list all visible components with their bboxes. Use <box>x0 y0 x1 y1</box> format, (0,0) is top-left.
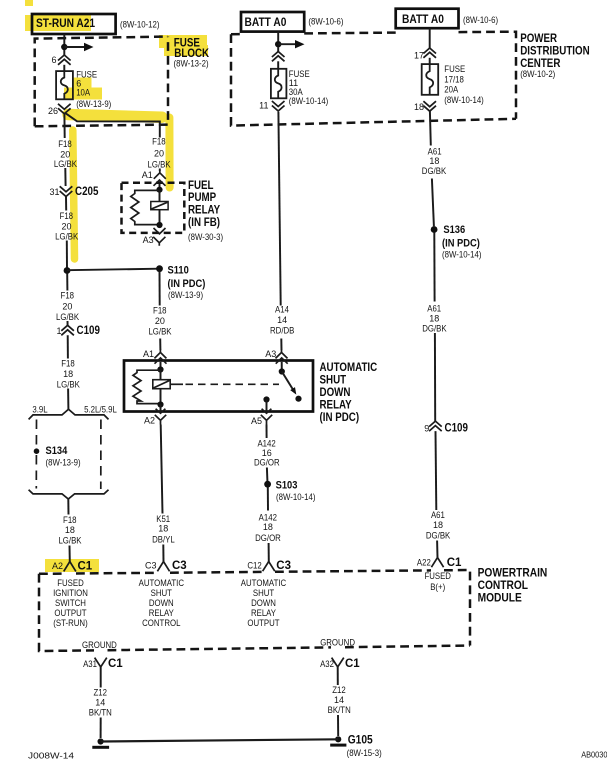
svg-text:S134: S134 <box>46 445 69 457</box>
svg-text:26: 26 <box>48 106 58 116</box>
svg-text:20: 20 <box>154 149 164 159</box>
svg-text:C1: C1 <box>108 658 123 670</box>
connector A32 of PCM C1 <box>332 658 344 667</box>
svg-text:LG/BK: LG/BK <box>148 160 171 170</box>
connector A31 of PCM C1 <box>95 658 107 667</box>
svg-text:RELAY: RELAY <box>251 608 276 618</box>
svg-text:18: 18 <box>263 522 273 532</box>
node box BATT A0 (right) <box>396 9 459 29</box>
svg-text:S110: S110 <box>168 265 189 277</box>
svg-text:A61: A61 <box>428 146 442 156</box>
ground terminal left <box>98 738 104 744</box>
svg-text:(8W-10-14): (8W-10-14) <box>289 96 329 106</box>
wire brace to F18 labels <box>67 499 69 515</box>
fuse block dashed enclosure <box>35 37 168 127</box>
svg-text:(8W-13-9): (8W-13-9) <box>168 290 203 300</box>
svg-text:F18: F18 <box>63 515 77 525</box>
svg-text:C3: C3 <box>276 560 291 572</box>
svg-text:GROUND: GROUND <box>320 638 355 648</box>
wire ASD coil to A2 <box>160 405 162 413</box>
wire to PCM A22 connector <box>436 541 438 558</box>
svg-text:FUSED: FUSED <box>424 571 451 581</box>
svg-text:F18: F18 <box>152 136 166 146</box>
svg-text:17/18: 17/18 <box>444 74 464 84</box>
fuel pump relay coil branch node top <box>156 187 162 193</box>
svg-text:A3: A3 <box>265 349 276 359</box>
wire left column to C205 <box>64 168 66 186</box>
svg-text:A142: A142 <box>257 438 275 448</box>
svg-text:DG/OR: DG/OR <box>255 533 281 543</box>
svg-text:LG/BK: LG/BK <box>55 231 78 241</box>
svg-text:LG/BK: LG/BK <box>57 379 80 389</box>
connector C3 of PCM C3 <box>157 562 169 572</box>
svg-text:(8W-10-14): (8W-10-14) <box>444 95 484 105</box>
svg-text:(8W-10-6): (8W-10-6) <box>463 15 498 25</box>
ASD switch pivot node <box>279 368 285 374</box>
ASD coil node top <box>157 366 163 372</box>
svg-text:11: 11 <box>259 101 268 111</box>
wire to PCM A2 connector <box>69 546 71 562</box>
svg-text:C109: C109 <box>445 422 468 434</box>
ASD relay coil element <box>153 380 170 389</box>
svg-text:A61: A61 <box>431 510 445 520</box>
wire branch down to fuel pump relay A1 <box>159 169 161 172</box>
svg-text:SWITCH: SWITCH <box>55 598 86 608</box>
svg-text:18: 18 <box>414 102 424 112</box>
svg-text:17: 17 <box>414 51 424 61</box>
svg-text:K51: K51 <box>156 514 170 524</box>
svg-text:A61: A61 <box>427 304 441 314</box>
wire to ASD relay A1 <box>159 339 161 351</box>
svg-text:FUSED: FUSED <box>57 578 84 588</box>
fuse 11 body <box>271 69 287 99</box>
svg-text:20: 20 <box>60 150 70 160</box>
wire A2 ASD down K51 <box>161 425 163 514</box>
wire to S110 branch node <box>66 241 68 269</box>
fuse 17/18 body <box>422 64 439 95</box>
wire C205 down <box>65 197 67 211</box>
svg-text:C1: C1 <box>78 560 93 572</box>
pin chevron out of fuel pump relay <box>154 228 166 234</box>
svg-text:(IN PDC): (IN PDC) <box>168 278 206 290</box>
highlighter mark over BLOCK word <box>164 45 208 56</box>
connector A1 ASD relay <box>154 350 166 359</box>
svg-text:LG/BK: LG/BK <box>58 535 81 545</box>
svg-text:SHUT: SHUT <box>320 375 347 387</box>
wire S103 down <box>267 487 269 510</box>
svg-text:(IN PDC): (IN PDC) <box>442 238 480 250</box>
wire A5 down to A142 labels <box>266 425 268 439</box>
svg-text:DG/BK: DG/BK <box>426 531 450 541</box>
wire A32 down <box>337 667 339 685</box>
wire BATT A0 left to node <box>277 32 279 42</box>
dashed run 5.2L/5.9L branch <box>100 420 102 490</box>
svg-text:Z12: Z12 <box>93 688 107 698</box>
ASD switch blade end node <box>295 396 301 402</box>
dashed run 3.9L branch <box>35 420 37 448</box>
pin chevron into ASD relay A3 <box>276 358 288 364</box>
connector A2 of PCM C1 <box>64 562 76 572</box>
wire to C12 connector <box>268 543 270 562</box>
svg-text:10A: 10A <box>76 88 90 98</box>
svg-text:A1: A1 <box>143 349 154 359</box>
svg-text:BK/TN: BK/TN <box>328 705 351 715</box>
svg-text:14: 14 <box>334 695 344 705</box>
dashed run 3.9L branch lower <box>35 455 37 489</box>
fuel pump relay resistor <box>131 190 160 224</box>
fuse 11 pin double chevron <box>272 101 285 111</box>
svg-text:AUTOMATIC: AUTOMATIC <box>320 362 378 374</box>
feed arrow right of BATT node <box>278 43 295 45</box>
svg-text:F18: F18 <box>153 305 167 315</box>
node junction left column <box>64 267 71 274</box>
svg-text:SHUT: SHUT <box>253 588 275 598</box>
svg-text:Z12: Z12 <box>332 685 346 695</box>
svg-text:18: 18 <box>429 156 439 166</box>
svg-text:(8W-13-2): (8W-13-2) <box>174 59 209 69</box>
automatic shut down relay box <box>124 361 313 412</box>
svg-text:14: 14 <box>95 698 105 708</box>
connector C109 pin1 double chevron <box>61 325 74 335</box>
wire BATT A0 right to fuse 17 <box>429 28 431 48</box>
wire fuse 26 down left branch <box>63 114 65 138</box>
wire left column below LG/BK to brace <box>66 273 68 290</box>
svg-text:BATT A0: BATT A0 <box>402 12 444 26</box>
svg-text:A142: A142 <box>259 512 277 522</box>
splice S110 <box>156 265 163 272</box>
node box BATT A0 (left) <box>241 12 304 32</box>
svg-text:A31: A31 <box>83 659 97 669</box>
wire into ASD switch pivot <box>281 362 283 372</box>
wire to ASD relay A3 <box>280 339 282 351</box>
svg-text:BATT A0: BATT A0 <box>245 15 287 29</box>
svg-text:18: 18 <box>158 524 168 534</box>
svg-text:C205: C205 <box>75 186 99 198</box>
wire BK/TN to ground <box>100 718 102 739</box>
coil stub to dashed link <box>170 383 183 385</box>
highlighter mark over FUSE word <box>159 35 207 48</box>
svg-text:(8W-10-14): (8W-10-14) <box>276 492 316 502</box>
svg-text:DOWN: DOWN <box>149 598 174 608</box>
ground G105 terminal <box>335 736 341 742</box>
wire to engine split brace <box>67 389 69 410</box>
wire fuse 18 down to A61 labels <box>429 111 432 145</box>
wire BATT fuse 11 to A3 <box>278 112 280 306</box>
svg-text:DOWN: DOWN <box>251 598 276 608</box>
svg-text:DG/BK: DG/BK <box>422 166 446 176</box>
fuel pump relay coil branch node bottom <box>156 222 162 228</box>
svg-text:20: 20 <box>61 222 71 232</box>
svg-text:LG/BK: LG/BK <box>54 159 77 169</box>
highlighter mark over ST-RUN A21 label <box>25 15 91 31</box>
wire to fuse 17/18 <box>429 58 431 64</box>
highlighter mark over fuse value 6 <box>73 78 92 88</box>
svg-text:(8W-30-3): (8W-30-3) <box>188 232 223 242</box>
svg-text:BK/TN: BK/TN <box>89 707 112 717</box>
pin chevron out of ASD relay A2 <box>156 409 166 413</box>
svg-text:A5: A5 <box>251 416 262 426</box>
fuel pump relay coil wire <box>159 190 161 225</box>
wire into ASD coil <box>160 362 162 370</box>
connector C109 pin9 double chevron <box>429 421 442 431</box>
pin chevron into fuel pump relay <box>154 180 166 186</box>
svg-text:18: 18 <box>63 369 73 379</box>
svg-text:DISTRIBUTION: DISTRIBUTION <box>520 46 590 58</box>
wire to fuse 11 <box>277 61 279 69</box>
svg-text:SHUT: SHUT <box>151 588 173 598</box>
connector A3 fuel pump relay <box>153 237 165 246</box>
svg-text:A3: A3 <box>143 235 154 245</box>
connector C205 double chevron <box>60 186 73 196</box>
wire across to splice S110 <box>67 269 160 271</box>
svg-text:POWER: POWER <box>520 33 557 45</box>
power distribution center dashed enclosure <box>231 32 516 126</box>
svg-text:C3: C3 <box>145 561 157 571</box>
connector C12 of PCM C3 <box>263 562 275 572</box>
splice S103 <box>264 481 271 488</box>
ASD relay coil wire <box>160 370 162 405</box>
svg-text:GROUND: GROUND <box>82 640 117 650</box>
wire A61 to C109 pin 9 <box>434 333 436 422</box>
svg-text:B(+): B(+) <box>430 582 445 592</box>
fuse 17 top double chevron <box>423 48 436 58</box>
svg-text:OUTPUT: OUTPUT <box>54 608 87 618</box>
wire to C3 connector <box>162 545 164 562</box>
connector A2 ASD relay <box>155 415 166 425</box>
svg-text:A32: A32 <box>320 659 334 669</box>
svg-text:DG/BK: DG/BK <box>422 324 446 334</box>
wire to C109 pin 1 <box>67 321 69 326</box>
splice S136 <box>431 226 438 233</box>
svg-text:(IN PDC): (IN PDC) <box>320 412 360 424</box>
svg-text:DG/OR: DG/OR <box>254 457 280 467</box>
svg-text:(8W-10-12): (8W-10-12) <box>120 19 160 29</box>
svg-text:RELAY: RELAY <box>188 205 220 217</box>
ASD coil node bottom <box>157 401 163 407</box>
connector A5 ASD relay <box>261 415 272 425</box>
svg-text:18: 18 <box>429 314 439 324</box>
svg-text:LG/BK: LG/BK <box>56 312 79 322</box>
svg-text:FUSE: FUSE <box>444 64 465 74</box>
connector pin 26 double chevron <box>58 104 71 114</box>
svg-text:A2: A2 <box>52 561 63 571</box>
ASD switch contact node <box>263 396 269 402</box>
svg-text:S136: S136 <box>443 224 465 236</box>
wire into fuel pump relay <box>159 184 161 190</box>
pin chevron into ASD relay A1 <box>155 358 167 364</box>
highlighter band along branch wire to fuel pump relay <box>68 115 162 118</box>
svg-text:MODULE: MODULE <box>478 590 522 604</box>
wire to fuse 6 <box>63 65 65 71</box>
svg-text:DB/YL: DB/YL <box>152 534 175 544</box>
svg-text:A22: A22 <box>417 557 431 567</box>
svg-text:9: 9 <box>424 423 429 433</box>
svg-text:(ST-RUN): (ST-RUN) <box>53 618 87 628</box>
fuel pump relay dashed enclosure <box>122 183 185 233</box>
svg-text:RD/DB: RD/DB <box>270 326 294 336</box>
engine merge brace lower <box>29 490 109 499</box>
svg-text:20: 20 <box>155 316 165 326</box>
wire S110 down to A14 labels <box>159 272 161 306</box>
svg-text:A2: A2 <box>144 415 155 425</box>
svg-text:RELAY: RELAY <box>149 608 174 618</box>
svg-text:RELAY: RELAY <box>320 399 352 411</box>
node junction below ST-RUN <box>61 44 67 50</box>
svg-text:LG/BK: LG/BK <box>148 326 171 336</box>
svg-text:F18: F18 <box>58 139 72 149</box>
wire to splice S103 <box>266 468 269 482</box>
fuse 6 body <box>56 71 73 99</box>
svg-text:C1: C1 <box>345 658 360 670</box>
connector A1 fuel pump relay <box>154 170 166 179</box>
engine split brace upper <box>29 409 109 419</box>
svg-text:(8W-13-9): (8W-13-9) <box>46 458 81 468</box>
svg-text:ST-RUN A21: ST-RUN A21 <box>36 16 95 30</box>
svg-text:A14: A14 <box>275 305 289 315</box>
node junction below BATT A0 left <box>275 41 281 47</box>
svg-text:18: 18 <box>433 520 443 530</box>
ASD relay resistor <box>133 370 161 403</box>
svg-text:(8W-10-6): (8W-10-6) <box>308 16 343 26</box>
wire C109 pin9 down to A61 labels <box>435 431 438 510</box>
feed arrow right of node <box>64 46 84 48</box>
wire C109 down <box>67 335 69 358</box>
pin chevron out of ASD relay A5 <box>262 409 272 413</box>
ASD switch blade <box>282 372 294 392</box>
branch wire diagonal and across to fuel pump relay <box>65 113 160 138</box>
svg-text:AUTOMATIC: AUTOMATIC <box>139 578 185 588</box>
svg-text:(8W-10-2): (8W-10-2) <box>520 69 555 79</box>
wire ST-RUN A21 to node <box>63 34 65 44</box>
svg-text:14: 14 <box>277 315 287 325</box>
fuse 11 top double chevron <box>272 52 285 62</box>
svg-text:DOWN: DOWN <box>320 387 351 399</box>
highlighter mark over fuse value 10A <box>64 88 102 100</box>
svg-text:J008W-14: J008W-14 <box>28 751 74 761</box>
svg-text:C109: C109 <box>77 325 100 337</box>
svg-text:IGNITION: IGNITION <box>53 588 88 598</box>
wire node to fuse 6 pin <box>63 50 65 56</box>
svg-text:F18: F18 <box>61 291 75 301</box>
wire S136 down <box>433 233 435 302</box>
svg-text:6: 6 <box>51 55 56 65</box>
svg-text:C12: C12 <box>247 560 261 570</box>
svg-text:20: 20 <box>62 301 72 311</box>
wire contact to A5 <box>266 400 268 413</box>
svg-text:20A: 20A <box>444 85 458 95</box>
wire node to fuse 11 <box>277 47 279 52</box>
powertrain control module dashed enclosure <box>39 570 470 651</box>
svg-text:PUMP: PUMP <box>188 192 216 204</box>
svg-text:F18: F18 <box>61 359 75 369</box>
svg-text:1: 1 <box>56 326 61 336</box>
svg-text:G105: G105 <box>348 732 373 746</box>
svg-text:C1: C1 <box>447 557 462 569</box>
ASD relay internal dashed link <box>186 383 280 385</box>
splice S134 <box>34 448 40 454</box>
svg-text:C3: C3 <box>172 560 187 572</box>
svg-text:5.2L/5.9L: 5.2L/5.9L <box>84 405 117 415</box>
svg-text:F18: F18 <box>60 211 74 221</box>
fuel pump relay coil element <box>151 202 168 210</box>
svg-text:A1: A1 <box>142 170 153 180</box>
svg-text:(IN FB): (IN FB) <box>188 217 220 229</box>
ground bus wire <box>101 739 339 741</box>
svg-text:(8W-13-9): (8W-13-9) <box>76 99 111 109</box>
svg-text:AUTOMATIC: AUTOMATIC <box>241 578 287 588</box>
connector A3 ASD relay <box>276 350 288 359</box>
wire BK/TN to ground G105 <box>337 715 339 736</box>
svg-text:AB0030: AB0030 <box>581 750 607 760</box>
svg-text:18: 18 <box>65 525 75 535</box>
connector A22 of PCM C1 <box>431 558 443 568</box>
wire A61 to splice S136 <box>432 179 434 227</box>
svg-text:3.9L: 3.9L <box>32 405 47 415</box>
highlighter mark over A2 C1 connector label <box>45 559 99 572</box>
svg-text:(8W-10-14): (8W-10-14) <box>442 250 482 260</box>
svg-text:CONTROL: CONTROL <box>142 618 180 628</box>
svg-text:FUEL: FUEL <box>188 180 214 192</box>
connector pin 6 double chevron <box>58 55 71 65</box>
svg-text:31: 31 <box>49 187 59 197</box>
highlighter bar along left F18 wire <box>73 130 75 259</box>
wire A31 down <box>100 667 102 688</box>
svg-text:OUTPUT: OUTPUT <box>247 618 280 628</box>
node box ST-RUN A21 <box>32 14 116 34</box>
svg-text:S103: S103 <box>276 479 298 491</box>
highlighter mark top-left corner <box>25 0 33 6</box>
fuse 18 pin double chevron <box>423 101 436 111</box>
svg-text:(8W-15-3): (8W-15-3) <box>347 748 382 758</box>
